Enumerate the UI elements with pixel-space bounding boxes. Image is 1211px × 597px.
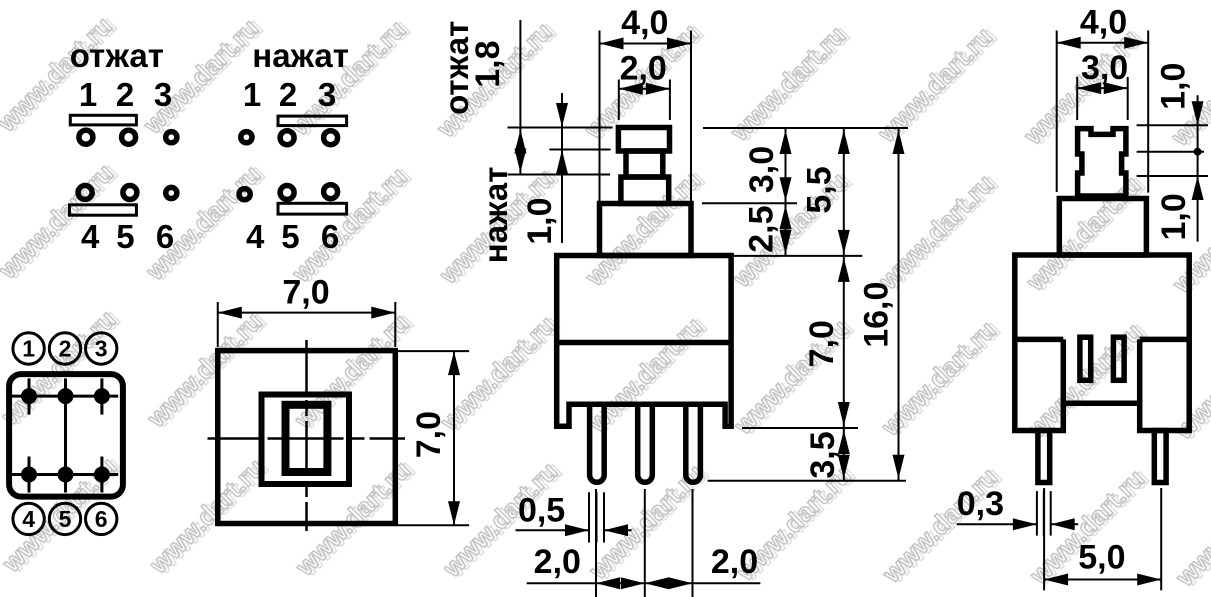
pin-bottom extension line right (708, 480, 906, 482)
contact circle pin3 released (open) (166, 132, 177, 143)
pin number 6 (pressed) (321, 218, 339, 255)
pin number 4 (pressed) (246, 218, 265, 255)
pin 2 centerline extension (644, 489, 646, 597)
pin number 5 (pressed) (281, 218, 299, 255)
svg-text:6: 6 (156, 218, 174, 255)
vertical centerline (305, 340, 308, 531)
pin right (side view) (1154, 431, 1166, 483)
contact circle pin4 released (78, 186, 92, 200)
svg-text:нажат: нажат (477, 167, 514, 264)
dimension line 16,0 (893, 128, 905, 481)
outer square body 7x7 (218, 351, 396, 524)
svg-text:0,3: 0,3 (957, 485, 1004, 523)
dimension 4,0: value label (621, 4, 668, 42)
pin right centerline extension (1160, 488, 1162, 590)
dimension line 3,0 / 2,5 (780, 128, 792, 256)
body outline (1015, 255, 1189, 431)
main body outline with feet (557, 256, 731, 427)
contact circle pin1 pressed (open) (241, 132, 252, 143)
dimension 3,5 value label (rotated) (804, 431, 842, 478)
pin left (side view) (1038, 431, 1050, 483)
svg-text:3: 3 (95, 336, 108, 362)
plunger cap (618, 128, 669, 152)
cap-top extension line right (703, 127, 908, 129)
pin thickness tick marks 0,3 (1037, 491, 1051, 535)
dimension 5,0 value label (1078, 539, 1125, 577)
dimension 3,0: dimension line with arrows (1077, 82, 1128, 94)
dimension 2,0: extension lines (619, 80, 670, 121)
svg-text:1: 1 (243, 76, 261, 113)
svg-text:5,5: 5,5 (801, 166, 839, 213)
dimension line 1,0 / 1,0 (1192, 95, 1204, 241)
svg-text:6: 6 (321, 218, 339, 255)
pin 1 node (21, 378, 37, 414)
reference line castle bottom right (1137, 175, 1208, 177)
label нажат (rotated) (477, 167, 514, 264)
pin number 5 (released) (116, 218, 134, 255)
svg-text:1,0: 1,0 (1155, 193, 1193, 240)
svg-text:3,0: 3,0 (743, 146, 781, 193)
pin 3 (front view) (686, 404, 701, 482)
svg-text:1: 1 (22, 336, 35, 362)
plunger collar (621, 177, 669, 204)
svg-text:2: 2 (279, 76, 297, 113)
svg-text:4,0: 4,0 (621, 4, 668, 42)
svg-text:16,0: 16,0 (858, 282, 896, 348)
svg-text:6: 6 (95, 506, 108, 532)
svg-text:0,5: 0,5 (518, 492, 565, 530)
pin number 2 (pressed) (279, 76, 297, 113)
body-top extension line right (734, 255, 863, 257)
svg-text:7,0: 7,0 (282, 274, 329, 312)
svg-text:2,5: 2,5 (743, 205, 781, 252)
collar step (1059, 199, 1146, 256)
reference line castle middle right with node (1137, 148, 1204, 156)
contact circle pin4 pressed (open) (239, 189, 250, 200)
slot 2 (1113, 337, 1124, 380)
label отжат (rotated) (438, 21, 475, 115)
dimension 4,0: dimension line with arrows (1057, 37, 1149, 49)
svg-text:7,0: 7,0 (410, 411, 448, 458)
dimension 3,0: extension lines (1077, 77, 1128, 120)
pin number 6 (released) (156, 218, 174, 255)
step-top extension line right (702, 202, 797, 204)
left block inner lines (1015, 339, 1064, 403)
svg-text:5,0: 5,0 (1078, 539, 1125, 577)
pin 4 node (21, 457, 37, 493)
dimension 4,0: extension lines (600, 31, 692, 202)
dimension 2,0 left value label (534, 543, 581, 581)
dimension 0,5 value label (518, 492, 565, 530)
pin 5 node (58, 457, 74, 493)
pin number 1 (released) (79, 76, 97, 113)
dimension 0,3 arrows (957, 518, 1078, 530)
pin 1 centerline extension (595, 489, 597, 597)
svg-text:нажат: нажат (252, 37, 349, 74)
right block inner lines (1140, 339, 1190, 403)
dimension 7,0 top: dimension line with arrows (218, 307, 396, 319)
dimension 7,0 top: extension lines (218, 302, 396, 347)
inner plunger rect (286, 405, 328, 472)
pin 3 centerline extension (692, 489, 694, 597)
pin number 1 (pressed) (243, 76, 261, 113)
plunger neck (626, 151, 663, 177)
upper step 4.0 wide (600, 204, 692, 256)
contact circle pin5 released (123, 186, 137, 200)
dimension 1,0 top value label (rotated) (1155, 63, 1193, 110)
middle square frame (262, 395, 350, 485)
svg-text:отжат: отжат (70, 37, 164, 74)
contact bar 4-5 released (70, 205, 137, 215)
dimension 2,0 right value label (711, 543, 758, 581)
svg-text:2: 2 (59, 336, 72, 362)
svg-text:1,0: 1,0 (521, 197, 559, 244)
dimension 4,0: dimension line with arrows (600, 38, 692, 50)
pressed-position reference line (549, 149, 610, 151)
contact circle pin1 released (79, 130, 93, 144)
svg-text:5: 5 (116, 218, 134, 255)
svg-text:3: 3 (154, 76, 172, 113)
reference line castle top right (1137, 124, 1208, 126)
numbered circle 2 (49, 333, 80, 364)
pin 3 node (94, 378, 110, 414)
contact circle pin6 pressed (324, 185, 338, 199)
pin 2 (front view) (638, 404, 653, 482)
label "нажат" (pressed) (252, 37, 349, 74)
dimension 2,5 value label (rotated) (743, 205, 781, 252)
svg-text:1,0: 1,0 (1155, 63, 1193, 110)
svg-text:2: 2 (116, 76, 134, 113)
wire row 4-5-6 (11, 473, 118, 476)
pin number 2 (released) (116, 76, 134, 113)
svg-text:3,0: 3,0 (1081, 49, 1128, 87)
numbered circle 1 (13, 333, 44, 364)
label "отжат" (released) (70, 37, 164, 74)
pin number 3 (released) (154, 76, 172, 113)
svg-text:5: 5 (281, 218, 299, 255)
dimension line 2,0 / 2,0 pin pitch (527, 577, 761, 589)
contact circle pin5 pressed (280, 186, 294, 200)
dimension 7,0 top: value label (282, 274, 329, 312)
svg-text:1,8: 1,8 (469, 40, 507, 87)
contact bar 2-3 pressed (278, 116, 347, 126)
contact circle pin2 pressed (280, 131, 294, 145)
dimension 1,0 value label (rotated) (521, 197, 559, 244)
dimension 3,0 value label (rotated) (743, 146, 781, 193)
dimension 7,0 right: value label (rotated) (410, 411, 448, 458)
svg-text:4: 4 (22, 506, 35, 532)
plunger castle profile (1078, 129, 1126, 196)
dimension line 5,0 (1044, 574, 1161, 586)
wire pole 2-5 (64, 396, 67, 474)
collar-top reference line (left) (508, 174, 611, 176)
svg-text:7,0: 7,0 (803, 320, 841, 367)
dimension 3,0: value label (1081, 49, 1128, 87)
pin left centerline extension (1043, 488, 1045, 590)
dimension 16,0 value label (rotated) (858, 282, 896, 348)
foot-bottom extension line right (742, 427, 858, 429)
pin number 3 (pressed) (318, 76, 336, 113)
dimension 1,0 bottom value label (rotated) (1155, 193, 1193, 240)
numbered circle 6 (86, 503, 117, 534)
svg-text:5: 5 (59, 506, 72, 532)
svg-text:4: 4 (246, 218, 265, 255)
pin number 4 (released) (81, 218, 100, 255)
contact circle pin2 released (122, 130, 136, 144)
dimension 7,0 value label (rotated) (803, 320, 841, 367)
pin width tick marks 0,5 (589, 492, 604, 542)
numbered circle 5 (49, 503, 80, 534)
dimension 0,3 value label (957, 485, 1004, 523)
svg-text:4: 4 (81, 218, 100, 255)
dimension 4,0: extension lines (1057, 31, 1149, 193)
dimension 4,0: value label (1080, 4, 1127, 42)
pin 2 node (58, 378, 74, 414)
svg-text:3: 3 (318, 76, 336, 113)
dimension 7,0 right: dimension line with arrows (448, 351, 460, 525)
svg-text:1: 1 (79, 76, 97, 113)
contact circle pin3 pressed (324, 131, 338, 145)
numbered circle 3 (86, 333, 117, 364)
dimension 2,0: dimension line with arrows (619, 83, 670, 95)
slot 1 (1080, 337, 1091, 380)
wire row 1-2-3 (11, 395, 118, 398)
svg-text:4,0: 4,0 (1080, 4, 1127, 42)
dimension 1,8 value label (rotated) (469, 40, 507, 87)
dimension 7,0 right: extension lines (398, 351, 469, 525)
pin 6 node (94, 457, 110, 493)
dimension 5,5 value label (rotated) (801, 166, 839, 213)
dimension line 1,8 (отжат) (514, 20, 526, 175)
numbered circle 4 (13, 503, 44, 534)
svg-text:3,5: 3,5 (804, 431, 842, 478)
dimension line 5,5 / 7,0 / 3,5 (838, 128, 850, 481)
dimension 2,0: value label (620, 50, 667, 88)
svg-text:2,0: 2,0 (534, 543, 581, 581)
pin 1 (front view) (590, 404, 605, 482)
contact bar 1-2 released (70, 115, 136, 125)
body parting line (557, 340, 731, 346)
contact circle pin6 released (open) (166, 187, 177, 198)
svg-text:2,0: 2,0 (620, 50, 667, 88)
switch outline rounded rect (9, 374, 123, 497)
contact bar 5-6 pressed (278, 203, 347, 214)
svg-text:2,0: 2,0 (711, 543, 758, 581)
released-position reference line (left) (508, 127, 613, 129)
dimension 0,5 arrows (516, 524, 632, 536)
dimension line 1,0 (нажат) (556, 93, 568, 243)
horizontal centerline (208, 437, 406, 440)
